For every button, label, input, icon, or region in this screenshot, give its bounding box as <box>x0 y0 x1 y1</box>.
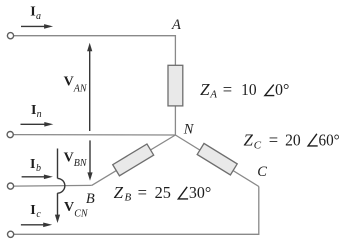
svg-text:AN: AN <box>73 83 88 94</box>
svg-text:60°: 60° <box>319 131 340 150</box>
svg-text:Z: Z <box>200 80 210 99</box>
terminal b <box>7 183 13 189</box>
label Ic <box>30 203 41 220</box>
label VAN <box>64 74 88 94</box>
impedance Z_C (rotated rectangle) <box>197 143 237 175</box>
svg-text:I: I <box>30 157 35 172</box>
svg-text:N: N <box>183 122 195 138</box>
svg-text:B: B <box>86 191 95 207</box>
svg-text:30°: 30° <box>189 183 211 202</box>
wire a: terminal a to corner to Z_A box <box>14 36 176 66</box>
svg-text:0°: 0° <box>275 80 289 99</box>
svg-text:=: = <box>223 80 232 99</box>
label Ib <box>30 157 41 174</box>
current arrow Ia <box>21 24 53 29</box>
svg-text:A: A <box>171 17 181 33</box>
label Ia <box>30 4 41 22</box>
value label ZA = 10 angle 0 deg <box>200 80 289 101</box>
svg-text:B: B <box>125 192 132 204</box>
voltage arrow VCN (pointing down, hops over wire b) <box>58 149 65 216</box>
wire: node N to node C diagonal <box>175 135 258 187</box>
svg-text:CN: CN <box>74 209 89 220</box>
wire n: terminal n to node N <box>13 134 175 136</box>
svg-text:25: 25 <box>155 183 171 202</box>
svg-text:Z: Z <box>244 131 254 150</box>
wire: node N to node B diagonal <box>92 135 176 185</box>
terminal c <box>8 231 14 237</box>
svg-text:b: b <box>36 163 41 174</box>
wire: Z_A box to node N <box>174 106 176 135</box>
label VCN <box>64 200 89 220</box>
current arrow Ib <box>22 175 53 180</box>
svg-text:20: 20 <box>285 131 301 150</box>
wire: node C down and bottom wire to terminal c <box>14 187 259 235</box>
value label ZB = 25 angle 30 deg <box>114 183 212 204</box>
svg-text:I: I <box>30 203 35 218</box>
current arrow Ic <box>21 223 52 228</box>
voltage arrow VBN (pointing down) <box>87 140 92 180</box>
svg-text:V: V <box>64 200 74 215</box>
terminal a <box>7 33 13 39</box>
voltage arrow VAN (pointing up) <box>87 43 92 131</box>
label VBN <box>64 150 88 169</box>
current arrow In <box>21 122 54 127</box>
svg-text:10: 10 <box>241 80 257 99</box>
svg-text:C: C <box>254 139 262 151</box>
wire b: terminal b to node B <box>14 184 92 187</box>
terminal n <box>7 132 13 138</box>
svg-text:V: V <box>64 74 74 89</box>
svg-text:BN: BN <box>74 158 88 169</box>
svg-text:=: = <box>269 131 278 150</box>
svg-text:V: V <box>64 150 74 165</box>
value label ZC = 20 angle 60 deg <box>244 131 340 152</box>
label In <box>31 103 42 120</box>
svg-text:n: n <box>37 109 42 120</box>
svg-text:a: a <box>36 11 41 22</box>
impedance Z_A (rectangle) <box>168 65 183 106</box>
svg-text:c: c <box>36 209 41 220</box>
svg-text:I: I <box>30 4 35 19</box>
svg-text:A: A <box>209 88 217 100</box>
svg-text:C: C <box>257 164 267 180</box>
impedance Z_B (rotated rectangle) <box>113 144 154 176</box>
svg-text:=: = <box>138 183 147 202</box>
svg-text:Z: Z <box>114 183 124 202</box>
